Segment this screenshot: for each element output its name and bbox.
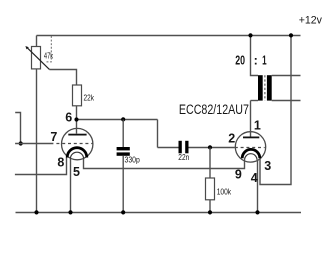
wire plate lead pin6 (76, 120, 78, 134)
wire 22n to grid node (189, 147, 235, 149)
svg-text:4: 4 (251, 171, 258, 185)
node junction bus/330p (121, 210, 125, 214)
wire corner down (157, 120, 159, 148)
resistor R1 22k body (73, 85, 82, 106)
node junction bus/100k (208, 210, 212, 214)
node junction rail/return (289, 33, 293, 37)
ground bus wire (16, 212, 302, 214)
transformer T1 secondary top lead (272, 75, 301, 77)
svg-text:7: 7 (50, 130, 57, 144)
triode V1a plate (68, 134, 86, 136)
transformer T1 secondary winding bar (267, 75, 272, 100)
wire potentiometer bottom lead to ground bus (36, 69, 38, 213)
svg-text:20: 20 (235, 54, 245, 68)
wire heater pin4 to ground (257, 160, 259, 213)
svg-text:22n: 22n (178, 152, 189, 162)
wire 330p bottom lead (122, 156, 124, 213)
node junction bus/pin4 (255, 210, 259, 214)
triode V1a heater arc (70, 152, 83, 159)
svg-text:ECC82/12AU7: ECC82/12AU7 (179, 102, 249, 117)
svg-text:2: 2 (228, 132, 235, 146)
triode V1b grid (dashed) (235, 147, 265, 149)
svg-text:8: 8 (57, 156, 64, 170)
capacitor C1 330p plates (117, 147, 130, 150)
transformer T1 primary winding bar (258, 75, 263, 100)
wire cathode pin8 lead (15, 158, 67, 175)
wire 100k top lead (209, 148, 211, 179)
wire heater pin5 to ground (70, 159, 72, 213)
wire node6 horizontal to corner (77, 119, 158, 121)
node junction 330p top (121, 117, 125, 121)
capacitor C2 22n plates (179, 141, 182, 154)
svg-text:6: 6 (65, 110, 72, 124)
triode V1a envelope (61, 128, 92, 159)
triode V1a cathode arc (67, 148, 87, 158)
transformer T1 core (dashed) (264, 75, 266, 100)
svg-text:+12v: +12v (299, 15, 323, 27)
transformer T1 secondary bottom lead (272, 100, 301, 102)
svg-text:9: 9 (235, 168, 242, 182)
node input junction (19, 141, 23, 145)
potentiometer wiper arrow (27, 47, 50, 69)
wire 330p top lead (122, 120, 124, 148)
wire wiper to 22k (49, 70, 76, 86)
wire heater link V1a to V1b (84, 159, 245, 169)
dashed pointer from rail to 47k wiper (46, 36, 51, 62)
triode V1b envelope (235, 132, 265, 162)
transformer T1 primary top lead (251, 36, 259, 76)
node junction grid/100k (208, 145, 212, 149)
input hook terminal (15, 113, 20, 144)
node junction pin 6 (74, 117, 78, 121)
node junction bus/pot (34, 210, 38, 214)
wire input to grid V1 (15, 143, 53, 145)
triode V1a grid (dashed) (56, 143, 93, 145)
wire 100k bottom lead (209, 200, 211, 213)
svg-text:100k: 100k (217, 187, 232, 197)
potentiometer VR1 47k body (32, 47, 41, 69)
wire 22k bottom to node 6 (76, 106, 78, 120)
svg-text:3: 3 (264, 159, 271, 173)
wire top +12v rail (37, 35, 301, 37)
triode V1b heater arc (245, 154, 257, 160)
node junction rail/primary (248, 33, 252, 37)
wire cathode pin3 to transformer return (260, 36, 291, 185)
svg-text:1: 1 (254, 119, 261, 133)
svg-text:5: 5 (73, 165, 80, 179)
resistor R2 100k body (206, 178, 215, 200)
triode V1b cathode arc (242, 149, 260, 158)
wire plate pin1 lead (250, 101, 252, 137)
transformer T1 primary bottom lead (251, 100, 259, 102)
svg-text:330p: 330p (125, 155, 141, 165)
svg-text:1: 1 (262, 54, 267, 68)
svg-text:47k: 47k (44, 51, 54, 61)
node junction bus/pin5 (68, 210, 72, 214)
svg-text:22k: 22k (84, 92, 95, 102)
wire corner to 22n (158, 147, 179, 149)
svg-text::: : (254, 54, 258, 68)
wire potentiometer top lead (36, 36, 38, 47)
triode V1b plate (243, 137, 259, 139)
